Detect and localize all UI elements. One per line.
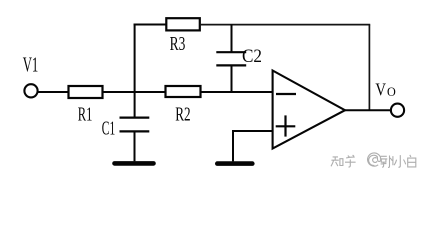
wire feedback top right segment bbox=[200, 24, 370, 26]
node Vo output terminal bbox=[391, 104, 404, 117]
resistor R3 bbox=[166, 18, 200, 30]
svg-text:R1: R1 bbox=[78, 104, 93, 126]
svg-text:V: V bbox=[375, 80, 386, 100]
watermark zhihu guoxiaobai bbox=[331, 153, 416, 168]
ground under C1 bbox=[115, 161, 154, 166]
wire non-inverting input down to ground bbox=[232, 130, 234, 161]
hu bbox=[345, 155, 356, 167]
svg-text:C1: C1 bbox=[102, 118, 115, 140]
capacitor C1 bbox=[120, 118, 150, 162]
svg-text:O: O bbox=[387, 84, 396, 99]
capacitor C2 bbox=[216, 52, 246, 92]
op-amp minus sign bbox=[276, 93, 296, 95]
wire R1 to R2 bbox=[103, 91, 166, 93]
svg-text:C2: C2 bbox=[242, 47, 262, 67]
zhi bbox=[331, 157, 339, 166]
wire feedback top left segment bbox=[134, 24, 167, 26]
node V1 input terminal bbox=[24, 84, 37, 97]
wire R2 to op-amp inverting input bbox=[201, 91, 273, 93]
op-amp U1 bbox=[273, 71, 345, 149]
svg-text:R2: R2 bbox=[175, 104, 190, 126]
wire op-amp output bbox=[345, 109, 391, 111]
resistor R2 bbox=[166, 86, 201, 97]
at bbox=[368, 153, 381, 166]
wire input to R1 bbox=[38, 91, 69, 93]
bai bbox=[408, 155, 416, 167]
wire feedback left vertical (node A down to C1) bbox=[134, 24, 136, 118]
guo bbox=[380, 156, 393, 168]
svg-text:V1: V1 bbox=[23, 52, 39, 76]
resistor R1 bbox=[69, 86, 103, 98]
wire op-amp non-inverting input bbox=[233, 130, 273, 132]
capacitor C2 top lead from feedback wire bbox=[231, 25, 233, 53]
wire feedback right vertical to output bbox=[368, 25, 370, 111]
ground under op-amp plus input bbox=[217, 161, 252, 166]
svg-text:R3: R3 bbox=[170, 33, 186, 55]
op-amp plus sign bbox=[276, 115, 296, 136]
xiao bbox=[394, 155, 406, 167]
